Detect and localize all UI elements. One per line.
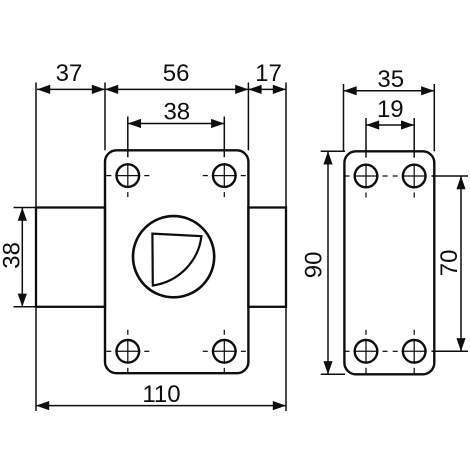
dimension line 38 (hole spacing, front): [128, 123, 225, 125]
dimension line 110 (overall length): [36, 405, 286, 407]
dimension line 70 (hole spacing vertical): [460, 176, 462, 351]
screw hole top-left (front view): [117, 164, 140, 187]
centerlines hole bottom-left (front): [106, 330, 149, 375]
extension line x=286 (bolt right): [285, 83, 287, 208]
extension lines for vertical 38 (cylinder): [14, 207, 37, 209]
svg-text:35: 35: [377, 66, 404, 93]
bolt housing (right protrusion): [248, 208, 286, 307]
svg-text:90: 90: [301, 252, 328, 279]
svg-text:110: 110: [142, 381, 180, 408]
screw hole bottom-right (front view): [213, 340, 236, 363]
svg-text:38: 38: [0, 242, 25, 269]
dimension line 19: [366, 124, 414, 126]
dimension line 90 (side height): [327, 151, 329, 374]
svg-text:37: 37: [56, 60, 83, 87]
extension line x=105 (body left): [104, 83, 106, 151]
lock body (front view): [105, 150, 248, 373]
lock body (side view): [344, 151, 434, 374]
dimension line 35: [344, 90, 435, 92]
screw hole top-right (side view): [403, 165, 426, 188]
screw hole bottom-left (front view): [117, 340, 140, 363]
extension line x=248.4 (body right): [247, 83, 249, 151]
svg-text:56: 56: [163, 60, 190, 87]
extension lines for 70 (hole vertical spacing): [432, 175, 469, 177]
screw hole top-left (side view): [355, 165, 378, 188]
screw hole bottom-left (side view): [355, 340, 378, 363]
svg-text:70: 70: [436, 250, 463, 277]
extension lines for 35 (side view width): [343, 84, 345, 151]
centerlines hole top-right (side): [393, 164, 427, 198]
keyway cam shape inside circle: [152, 234, 201, 286]
centerlines hole bottom-right (side): [393, 330, 427, 375]
screw hole bottom-right (side view): [403, 340, 426, 363]
extension lines for 90 (side height): [321, 150, 345, 152]
dimension line row1 (37 / 56 / 17): [37, 88, 286, 90]
cylinder housing (left protrusion): [36, 208, 105, 307]
centerlines hole top-left (front): [106, 163, 149, 197]
svg-text:19: 19: [377, 96, 404, 123]
centerlines hole bottom-right (front): [203, 330, 246, 375]
svg-text:38: 38: [163, 98, 190, 125]
centerlines hole top-right (front): [203, 163, 246, 197]
centerlines hole top-left (side): [345, 164, 388, 198]
svg-text:17: 17: [255, 60, 282, 87]
screw hole top-right (front view): [213, 164, 236, 187]
centerlines hole bottom-left (side): [345, 330, 388, 375]
extension lines for 38 hole spacing (front): [127, 117, 129, 158]
cylinder face circle: [133, 216, 214, 297]
extension line x=36 (left of cylinder): [35, 83, 37, 208]
extension lines for 19 (side hole spacing): [365, 118, 367, 158]
dimension line 38 vertical (cylinder height): [21, 208, 23, 307]
